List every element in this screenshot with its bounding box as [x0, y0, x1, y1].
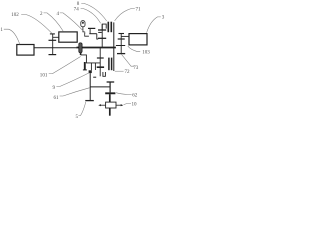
- arrow left of box 10: [98, 104, 105, 106]
- output gear cap O1: [107, 81, 115, 83]
- leader 10: [124, 104, 131, 105]
- leader 73: [121, 54, 134, 66]
- wire: output gear stem: [109, 82, 111, 92]
- svg-text:71: 71: [135, 7, 141, 13]
- wire: drop link 9: [90, 63, 92, 70]
- generator box 2: [59, 32, 77, 42]
- label 10: [131, 101, 137, 107]
- leader 72: [115, 70, 124, 72]
- wire: right stub shaft: [116, 45, 125, 47]
- clutch disc pair 72 (right): [111, 58, 113, 71]
- leader 4: [60, 13, 86, 33]
- leader 101: [49, 57, 81, 74]
- label 73: [133, 65, 139, 71]
- leader 9: [56, 73, 89, 87]
- wire: stub to box 3: [121, 35, 129, 37]
- wire: step link route: [81, 55, 101, 63]
- svg-text:101: 101: [40, 72, 48, 78]
- wire: output shaft upper: [109, 94, 111, 102]
- wire: main center shaft (thick): [77, 47, 116, 49]
- tick bar aux: [93, 76, 96, 78]
- svg-text:61: 61: [53, 95, 59, 101]
- damper capsule 101: [79, 43, 82, 53]
- wire: pin stem: [83, 27, 89, 37]
- wire: capsule nub: [80, 53, 82, 55]
- leader 62: [116, 93, 132, 95]
- gear cap R1: [119, 33, 125, 35]
- slider blob 9: [89, 70, 92, 73]
- leader 74: [81, 9, 101, 24]
- gear bar C2: [98, 37, 106, 39]
- output gear cap O2 (62): [105, 92, 115, 94]
- label 103: [142, 49, 150, 55]
- synchro bracket top: [102, 24, 106, 30]
- gear stem right: [120, 34, 122, 54]
- label 2: [40, 11, 43, 17]
- leader 103: [128, 46, 140, 51]
- leader 1: [4, 29, 20, 44]
- label 62: [132, 93, 138, 99]
- gear stem left assembly: [52, 34, 54, 55]
- label 74: [74, 6, 80, 12]
- label 71: [135, 7, 141, 13]
- wire: output shaft lower tip: [109, 108, 111, 116]
- fork bar T1: [88, 27, 95, 29]
- wire: vertical shaft 61: [89, 73, 91, 101]
- machine box 3: [129, 34, 147, 45]
- motor box 1: [17, 45, 34, 56]
- label 61: [53, 95, 59, 101]
- label 102: [11, 12, 19, 18]
- wire: stub shaft to box 2: [53, 36, 59, 38]
- leader 5: [78, 102, 85, 116]
- leader 102: [21, 15, 52, 34]
- fork bar T2: [89, 33, 97, 35]
- sleeve bar (dark): [84, 62, 86, 70]
- gear cap A: [50, 33, 55, 35]
- label 101: [40, 72, 48, 78]
- label 9: [53, 85, 56, 91]
- gear cap B: [49, 39, 57, 41]
- wire: right vertical shaft: [113, 22, 115, 71]
- label 3: [162, 15, 165, 21]
- clutch disc pair 71 (right): [110, 22, 112, 33]
- gear cap C: [49, 54, 57, 56]
- wire: fork drop link: [97, 34, 98, 39]
- wire: bottom rail: [90, 86, 110, 88]
- wire: input shaft from box 1: [34, 47, 77, 49]
- gear mesh bar small: [98, 31, 102, 33]
- fork stem: [89, 28, 91, 33]
- actuator pin 4 (lollipop head): [81, 21, 85, 27]
- svg-text:62: 62: [132, 93, 138, 99]
- svg-text:103: 103: [142, 49, 150, 55]
- svg-text:72: 72: [124, 69, 130, 75]
- gear cap R2: [118, 38, 125, 40]
- clutch disc pair 71 (left): [107, 22, 109, 33]
- gear bar B1: [97, 57, 104, 59]
- synchro bracket bottom: [103, 72, 106, 76]
- svg-text:73: 73: [133, 65, 139, 71]
- svg-text:102: 102: [11, 12, 19, 18]
- svg-text:74: 74: [74, 6, 80, 12]
- leader 8: [81, 3, 106, 21]
- label 72: [124, 69, 130, 75]
- shift actuator box 10: [106, 102, 116, 108]
- wire: center gear stem top: [101, 24, 103, 47]
- wire: bottom center gear stem: [99, 48, 101, 77]
- leader 71: [115, 9, 135, 21]
- label 1: [0, 27, 3, 33]
- svg-text:10: 10: [131, 101, 137, 107]
- gear bar B2: [97, 66, 104, 68]
- leader 61: [60, 88, 90, 96]
- arrow right of box 10: [116, 104, 123, 106]
- end cap 5: [85, 100, 94, 102]
- wire: drop link aux: [94, 63, 96, 70]
- clutch disc pair 72 (left): [108, 58, 110, 71]
- sleeve foot: [83, 69, 87, 71]
- label 4: [57, 11, 60, 17]
- leader 3: [147, 17, 161, 33]
- label 5: [76, 114, 79, 120]
- label 8: [77, 1, 80, 7]
- leader 2: [44, 13, 64, 32]
- gear bar C1: [98, 29, 106, 31]
- gear cap R3 (73): [117, 53, 125, 55]
